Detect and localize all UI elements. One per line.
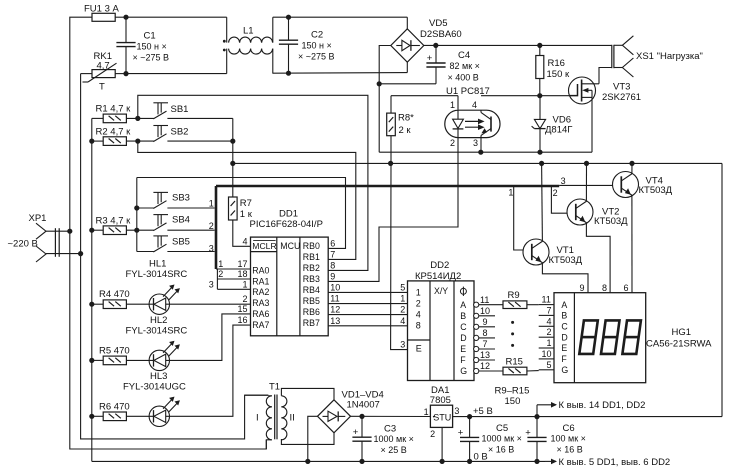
- wire secondary bottom route: [281, 433, 334, 445]
- svg-text:2 к: 2 к: [399, 125, 412, 136]
- svg-text:7: 7: [330, 249, 335, 259]
- svg-text:C1: C1: [144, 31, 156, 42]
- svg-text:F: F: [460, 355, 466, 365]
- capacitor C5: [458, 417, 522, 462]
- svg-text:T: T: [99, 81, 105, 92]
- wire R8 to pin1: [391, 96, 458, 113]
- svg-text:2: 2: [416, 299, 421, 309]
- svg-text:SB5: SB5: [172, 236, 190, 247]
- svg-text:15: 15: [237, 304, 247, 314]
- svg-text:1: 1: [242, 279, 247, 289]
- svg-text:HG1: HG1: [672, 327, 692, 338]
- wire R8/E feed: [391, 163, 408, 349]
- svg-text:4: 4: [400, 316, 405, 326]
- svg-text:3: 3: [473, 138, 478, 148]
- svg-text:4: 4: [242, 236, 247, 246]
- svg-text:2SK2761: 2SK2761: [602, 92, 641, 103]
- regulator DA1 7805: [424, 385, 460, 462]
- svg-text:11: 11: [330, 294, 339, 304]
- svg-text:SB2: SB2: [171, 127, 189, 138]
- wire emitter/source return line: [379, 150, 592, 155]
- svg-text:150 н ×: 150 н ×: [137, 41, 167, 51]
- svg-text:13: 13: [330, 316, 340, 326]
- transistor VT1: [523, 163, 588, 292]
- wire DD2 outputs and stubs: [474, 295, 514, 374]
- thermistor RK1: [83, 51, 117, 92]
- svg-text:10: 10: [542, 349, 552, 359]
- zener diode VD6: [532, 96, 573, 153]
- wire base 3 from bundle: [559, 176, 613, 186]
- svg-text:1N4007: 1N4007: [347, 399, 380, 410]
- svg-text:16: 16: [237, 315, 247, 325]
- svg-text:C6: C6: [563, 423, 575, 434]
- svg-text:9: 9: [483, 317, 488, 327]
- svg-text:100 мк ×: 100 мк ×: [551, 434, 586, 444]
- resistor R4: [92, 289, 149, 308]
- bridge rectifier VD5: [391, 17, 462, 72]
- svg-text:D: D: [460, 333, 466, 343]
- svg-text:B: B: [561, 311, 567, 321]
- svg-text:К выв. 5 DD1, выв. 6 DD2: К выв. 5 DD1, выв. 6 DD2: [559, 457, 671, 468]
- svg-text:VD5: VD5: [429, 18, 447, 29]
- svg-text:FYL-3014UGC: FYL-3014UGC: [123, 381, 186, 392]
- cable bundle (harness): [209, 186, 559, 289]
- svg-text:+: +: [353, 427, 359, 438]
- svg-text:FU1 3 А: FU1 3 А: [84, 3, 120, 14]
- svg-text:5: 5: [400, 282, 405, 292]
- svg-text:4: 4: [416, 310, 421, 320]
- svg-text:КР514ИД2: КР514ИД2: [415, 271, 461, 282]
- svg-text:× ~275 В: × ~275 В: [298, 51, 335, 61]
- svg-text:SB1: SB1: [171, 104, 189, 115]
- resistor R16: [536, 45, 570, 96]
- svg-text:C2: C2: [311, 30, 323, 41]
- transistor VT4: [613, 163, 673, 292]
- svg-text:1: 1: [400, 294, 405, 304]
- svg-text:7: 7: [483, 339, 488, 349]
- svg-text:10: 10: [480, 306, 490, 316]
- svg-text:2: 2: [553, 188, 558, 198]
- wire gate line: [481, 93, 570, 98]
- svg-text:C: C: [561, 322, 568, 332]
- svg-text:1: 1: [450, 100, 455, 110]
- wire base 2 from bundle: [551, 186, 568, 213]
- svg-text:C3: C3: [384, 423, 396, 434]
- svg-text:RB7: RB7: [303, 318, 320, 328]
- svg-text:RB6: RB6: [303, 307, 320, 317]
- svg-text:T1: T1: [269, 382, 280, 393]
- svg-text:11: 11: [542, 295, 551, 305]
- svg-text:G: G: [460, 366, 467, 376]
- svg-text:4,7: 4,7: [97, 61, 110, 72]
- svg-text:13: 13: [480, 350, 490, 360]
- button SB5: [137, 236, 215, 252]
- resistor R6: [92, 401, 149, 420]
- wire top rail to bridge: [273, 15, 408, 76]
- svg-text:+5 В: +5 В: [473, 406, 493, 417]
- svg-text:9: 9: [579, 283, 584, 293]
- svg-text:RB4: RB4: [303, 285, 320, 295]
- svg-text:PIC16F628-04I/P: PIC16F628-04I/P: [250, 219, 323, 230]
- svg-text:HL2: HL2: [150, 315, 167, 326]
- svg-text:C: C: [460, 322, 467, 332]
- capacitor C1: [116, 17, 169, 73]
- svg-text:RB1: RB1: [303, 252, 320, 262]
- svg-text:SB3: SB3: [172, 192, 190, 203]
- LED HL1: [126, 259, 251, 315]
- svg-text:RB0: RB0: [303, 241, 320, 251]
- wire RB1 keyboard row: [138, 141, 356, 259]
- wire HG1 input stubs: [539, 295, 554, 370]
- svg-text:I: I: [256, 412, 259, 423]
- svg-text:1: 1: [547, 338, 552, 348]
- resistor R1: [92, 104, 154, 123]
- svg-text:КТ503Д: КТ503Д: [639, 185, 673, 196]
- svg-text:A: A: [561, 300, 567, 310]
- svg-text:FYL-3014SRC: FYL-3014SRC: [126, 269, 188, 280]
- svg-text:150 к: 150 к: [547, 69, 570, 80]
- svg-text:0 В: 0 В: [474, 452, 488, 463]
- transistor VT3 (MOSFET): [569, 68, 642, 153]
- svg-text:4: 4: [472, 100, 477, 110]
- wire ground rail: [92, 452, 670, 468]
- svg-text:× 400 В: × 400 В: [448, 72, 479, 82]
- connector XS1 (load): [612, 36, 703, 77]
- svg-text:E: E: [416, 343, 422, 353]
- display HG1 CA56-21SRWA: [554, 283, 712, 383]
- svg-text:RA3: RA3: [252, 298, 269, 308]
- svg-text:R15: R15: [506, 356, 523, 367]
- transformer T1: [256, 382, 295, 440]
- svg-text:1: 1: [508, 188, 513, 198]
- svg-text:R1 4,7 к: R1 4,7 к: [96, 104, 132, 115]
- svg-text:4: 4: [547, 316, 552, 326]
- svg-text:2: 2: [209, 221, 214, 231]
- svg-text:R9–R15: R9–R15: [495, 385, 530, 396]
- svg-text:9: 9: [330, 271, 335, 281]
- svg-text:КТ503Д: КТ503Д: [549, 255, 583, 266]
- svg-text:17: 17: [237, 259, 247, 269]
- svg-text:3: 3: [561, 176, 566, 186]
- wire RB4-RB7 to DD2: [328, 292, 407, 325]
- svg-text:18: 18: [237, 269, 247, 279]
- svg-text:RA1: RA1: [252, 276, 269, 286]
- wire base 1 from bundle: [508, 186, 524, 250]
- LED HL2: [126, 314, 251, 371]
- svg-text:82 мк ×: 82 мк ×: [450, 61, 480, 71]
- svg-text:1000 мк ×: 1000 мк ×: [482, 434, 522, 444]
- svg-text:R5 470: R5 470: [99, 345, 130, 356]
- svg-text:6: 6: [330, 238, 335, 248]
- wire bridge minus to ground: [308, 416, 318, 461]
- svg-text:DD1: DD1: [279, 208, 298, 219]
- svg-text:HL1: HL1: [149, 259, 166, 270]
- wire pin2 to RB3 route: [328, 138, 458, 282]
- svg-text:RB5: RB5: [303, 296, 320, 306]
- svg-text:C5: C5: [496, 423, 508, 434]
- wire mains line N (bottom): [81, 71, 269, 439]
- wire bundle exit 1 to RA0: [216, 259, 251, 269]
- svg-text:R9: R9: [508, 290, 520, 301]
- svg-text:150: 150: [505, 396, 521, 407]
- svg-text:× ~275 В: × ~275 В: [133, 52, 170, 62]
- svg-text:2: 2: [218, 269, 223, 279]
- label R9-R15: [495, 385, 530, 407]
- svg-text:X/Y: X/Y: [434, 286, 448, 296]
- svg-text:3: 3: [454, 406, 459, 416]
- svg-text:C4: C4: [458, 50, 470, 61]
- svg-text:6: 6: [623, 283, 628, 293]
- svg-text:F: F: [561, 354, 567, 364]
- wire RB0 keyboard row: [137, 178, 346, 249]
- svg-text:Д814Г: Д814Г: [545, 124, 572, 135]
- bridge rectifier VD1-VD4: [318, 389, 384, 432]
- svg-text:+: +: [458, 427, 464, 438]
- button SB3: [137, 192, 215, 208]
- resistor R9: [503, 290, 539, 309]
- wire DC minus net: [377, 46, 436, 153]
- svg-text:3: 3: [209, 279, 214, 289]
- wire secondary top route: [281, 388, 334, 399]
- svg-text:MCU: MCU: [280, 241, 300, 251]
- svg-text:1: 1: [416, 288, 421, 298]
- svg-text:× 16 В: × 16 В: [488, 445, 514, 455]
- svg-text:~220 В: ~220 В: [8, 238, 38, 249]
- svg-text:2: 2: [242, 294, 247, 304]
- wire DC+ to DA1: [351, 414, 431, 419]
- svg-text:× 25 В: × 25 В: [381, 445, 407, 455]
- svg-text:E: E: [460, 344, 466, 354]
- svg-text:3: 3: [209, 243, 214, 253]
- svg-text:1000 мк ×: 1000 мк ×: [374, 434, 414, 444]
- svg-text:5: 5: [547, 360, 552, 370]
- svg-text:SB4: SB4: [172, 215, 190, 226]
- svg-text:12: 12: [330, 305, 340, 315]
- wire bundle exit 2 to RA1: [217, 269, 250, 279]
- svg-text:R2 4,7 к: R2 4,7 к: [96, 126, 132, 137]
- svg-text:1: 1: [424, 407, 429, 417]
- svg-text:× 16 В: × 16 В: [557, 445, 583, 455]
- capacitor C2: [279, 17, 335, 73]
- svg-text:L1: L1: [243, 26, 254, 37]
- svg-text:A: A: [460, 300, 466, 310]
- connector XP1: [8, 213, 84, 262]
- svg-text:II: II: [290, 412, 295, 423]
- svg-text:VT3: VT3: [613, 81, 630, 92]
- wire +5V branch arrow: [537, 400, 645, 416]
- wire +5V rail top: [233, 161, 722, 417]
- resistor R15: [503, 356, 539, 374]
- svg-text:MCLR: MCLR: [252, 241, 276, 251]
- svg-text:8: 8: [602, 283, 607, 293]
- wire SB column to +5V and R7: [230, 118, 235, 197]
- svg-text:G: G: [561, 365, 568, 375]
- svg-text:150 н ×: 150 н ×: [302, 40, 332, 50]
- wire SB3 column: [134, 178, 139, 252]
- button SB4: [153, 215, 214, 231]
- wire RB2 keyboard row: [138, 95, 368, 270]
- capacitor C3: [352, 416, 414, 461]
- svg-text:D2SBA60: D2SBA60: [420, 29, 462, 40]
- resistor R8: [387, 113, 414, 164]
- svg-text:2: 2: [430, 429, 435, 439]
- svg-text:1: 1: [218, 259, 223, 269]
- wire +310V rail: [424, 43, 612, 48]
- optocoupler U1 PC817: [445, 86, 500, 148]
- svg-text:R7: R7: [240, 198, 252, 209]
- svg-text:E: E: [561, 343, 567, 353]
- wire pin3 to return: [480, 138, 482, 153]
- svg-text:1: 1: [209, 199, 214, 209]
- svg-text:B: B: [460, 311, 466, 321]
- svg-text:RB3: RB3: [303, 274, 320, 284]
- svg-text:D: D: [561, 332, 567, 342]
- resistor R3: [92, 215, 154, 234]
- wire ground left bus: [89, 118, 94, 461]
- svg-text:RA7: RA7: [252, 320, 269, 330]
- svg-text:8: 8: [416, 321, 421, 331]
- svg-text:R16: R16: [548, 58, 565, 69]
- wire primary top route: [245, 394, 269, 396]
- inductor L1 (common-mode choke): [223, 17, 273, 73]
- svg-text:8: 8: [330, 260, 335, 270]
- svg-text:STU: STU: [433, 413, 451, 423]
- button SB2: [153, 126, 233, 142]
- svg-text:FYL-3014SRC: FYL-3014SRC: [126, 325, 188, 336]
- wire +5V output rail: [453, 406, 722, 419]
- svg-text:R4 470: R4 470: [99, 289, 130, 300]
- resistor R2: [92, 126, 154, 145]
- wire mains line L (top): [70, 15, 266, 449]
- svg-text:+: +: [525, 427, 531, 438]
- capacitor C4: [426, 45, 480, 84]
- svg-text:RB2: RB2: [303, 263, 320, 273]
- svg-text:U1 PC817: U1 PC817: [446, 86, 490, 97]
- svg-text:2: 2: [450, 138, 455, 148]
- svg-text:7805: 7805: [430, 395, 451, 406]
- LED HL3: [123, 325, 251, 426]
- svg-text:R8*: R8*: [398, 113, 414, 124]
- microcontroller DD1 PIC16F628: [237, 208, 340, 335]
- transistor VT2: [567, 163, 628, 292]
- svg-text:XP1: XP1: [29, 213, 47, 224]
- svg-text:11: 11: [480, 295, 489, 305]
- svg-text:R6 470: R6 470: [99, 401, 130, 412]
- svg-text:К выв. 14 DD1, DD2: К выв. 14 DD1, DD2: [559, 400, 646, 411]
- svg-text:12: 12: [480, 361, 490, 371]
- svg-text:RA6: RA6: [252, 309, 269, 319]
- resistor R7: [229, 197, 253, 246]
- capacitor C6: [525, 417, 586, 462]
- svg-text:8: 8: [483, 328, 488, 338]
- resistor R5: [92, 345, 149, 364]
- decoder DD2 KR514ID2: [400, 260, 474, 380]
- svg-text:CA56-21SRWA: CA56-21SRWA: [646, 338, 712, 349]
- wire primary bottom route: [265, 440, 267, 449]
- svg-text:+: +: [427, 53, 433, 64]
- wire bundle exit 3 to RA2: [209, 279, 251, 289]
- svg-text:XS1 "Нагрузка": XS1 "Нагрузка": [636, 51, 703, 62]
- svg-text:RA0: RA0: [252, 265, 269, 275]
- svg-text:R3 4,7 к: R3 4,7 к: [96, 215, 132, 226]
- svg-text:3: 3: [400, 340, 405, 350]
- svg-text:10: 10: [330, 282, 340, 292]
- svg-text:2: 2: [547, 327, 552, 337]
- svg-text:2: 2: [400, 305, 405, 315]
- fuse FU1: [84, 3, 120, 21]
- svg-text:7: 7: [547, 305, 552, 315]
- button SB1: [153, 103, 233, 119]
- svg-text:RA2: RA2: [252, 287, 269, 297]
- svg-text:КТ503Д: КТ503Д: [594, 216, 628, 227]
- svg-text:DD2: DD2: [430, 260, 449, 271]
